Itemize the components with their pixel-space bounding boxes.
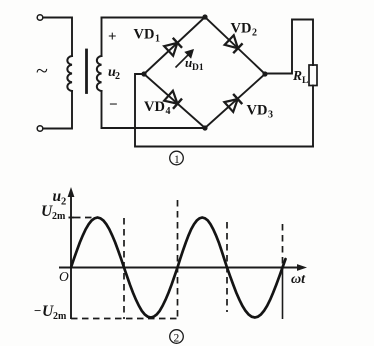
svg-text:−: − — [34, 303, 41, 318]
svg-text:2: 2 — [61, 197, 66, 208]
svg-text:2: 2 — [252, 28, 257, 39]
svg-text:2: 2 — [115, 71, 120, 82]
svg-text:4: 4 — [166, 106, 171, 117]
svg-text:R: R — [292, 68, 302, 83]
svg-text:1: 1 — [174, 154, 180, 166]
svg-text:VD: VD — [144, 99, 165, 115]
svg-text:ωt: ωt — [291, 272, 306, 287]
svg-text:3: 3 — [268, 110, 273, 121]
svg-text:~: ~ — [36, 58, 48, 83]
svg-text:2m: 2m — [53, 311, 67, 322]
svg-text:+: + — [108, 29, 117, 45]
svg-text:VD: VD — [134, 27, 155, 43]
svg-text:D1: D1 — [192, 63, 204, 73]
svg-text:VD: VD — [231, 21, 252, 37]
svg-text:VD: VD — [247, 103, 268, 119]
svg-text:2: 2 — [174, 333, 180, 345]
svg-text:−: − — [109, 97, 118, 113]
svg-text:L: L — [302, 76, 308, 86]
svg-text:2m: 2m — [52, 211, 66, 222]
svg-text:O: O — [59, 269, 69, 284]
svg-text:1: 1 — [155, 34, 160, 45]
